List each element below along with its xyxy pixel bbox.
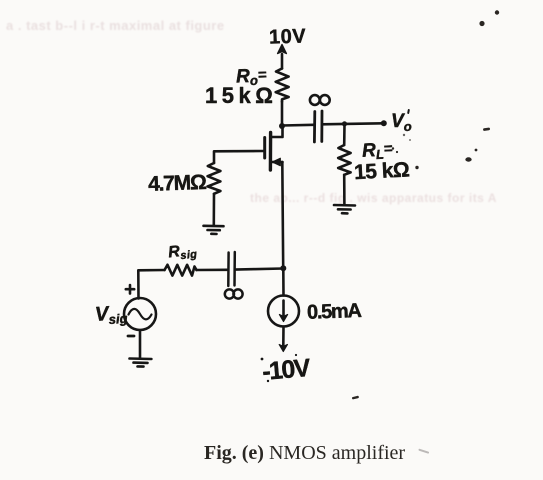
wire RG to ground bbox=[213, 194, 216, 225]
node source junction bbox=[280, 265, 286, 271]
label RD value Ro= 15kOhm bbox=[205, 65, 277, 108]
current source I1 bbox=[268, 296, 299, 327]
node RL junction bbox=[342, 121, 347, 126]
wire drain node to output capacitor bbox=[282, 124, 314, 127]
source Vsig bbox=[124, 285, 156, 336]
svg-text:the ap... r--d fig . wis: the ap... r--d fig . wis apparatus for i… bbox=[250, 191, 497, 205]
wire transistor source down to source node bbox=[281, 162, 285, 268]
capacitor C1 input coupling bbox=[228, 252, 235, 286]
wire RD bottom to drain node bbox=[281, 102, 284, 126]
wire RL to ground bbox=[343, 175, 346, 205]
capacitor C2 output coupling bbox=[314, 111, 322, 142]
ground (RG) bbox=[204, 226, 224, 234]
svg-text:10V: 10V bbox=[269, 25, 307, 48]
svg-text:15 kΩ: 15 kΩ bbox=[354, 158, 410, 184]
svg-text:0.5mA: 0.5mA bbox=[307, 300, 362, 324]
wire Vsig bottom to ground bbox=[139, 330, 142, 358]
wire Rsig to input capacitor bbox=[197, 268, 228, 271]
label Vo bbox=[391, 109, 412, 134]
label C1 value infinity bbox=[225, 289, 243, 298]
wire capacitor to Vo terminal bbox=[322, 123, 383, 124]
label C2 value infinity bbox=[310, 95, 330, 105]
label RL value RL= 15kOhm bbox=[354, 139, 410, 184]
wire RL junction down to RL bbox=[343, 125, 346, 146]
label -10V bbox=[261, 354, 312, 386]
resistor Rsig bbox=[165, 265, 197, 276]
resistor RL bbox=[338, 145, 350, 175]
wire input capacitor to source node bbox=[235, 269, 283, 270]
power supply +10V bbox=[278, 45, 287, 69]
svg-text:a . tast b--l i r-t maxi: a . tast b--l i r-t maximal at figure bbox=[6, 18, 225, 33]
node Vo terminal bbox=[381, 120, 387, 126]
resistor RG 4.7M bbox=[208, 163, 221, 194]
svg-text:Fig. (e) NMOS amplifier: Fig. (e) NMOS amplifier bbox=[204, 442, 405, 464]
transistor Q1 NMOS bbox=[265, 127, 283, 171]
wire gate to RG top bbox=[214, 151, 264, 163]
ground (RL) bbox=[334, 205, 355, 213]
wire source node to current source bbox=[282, 269, 285, 296]
wire Vsig top to Rsig bbox=[138, 270, 164, 299]
svg-text:15kΩ: 15kΩ bbox=[205, 83, 277, 108]
svg-text:4.7MΩ: 4.7MΩ bbox=[148, 171, 207, 196]
resistor RD bbox=[276, 69, 289, 102]
node drain junction bbox=[279, 123, 285, 129]
ground (Vsig) bbox=[130, 359, 152, 367]
power supply -10V bbox=[279, 327, 287, 352]
